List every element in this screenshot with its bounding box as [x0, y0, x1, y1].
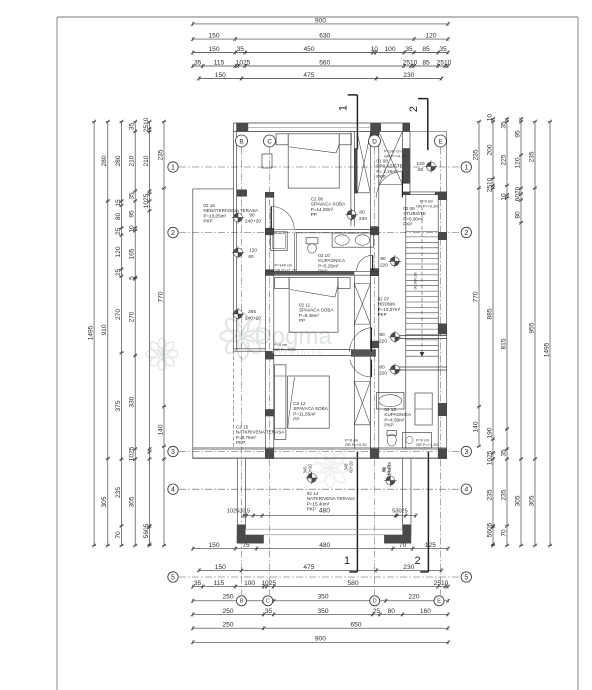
svg-text:280: 280: [101, 155, 108, 166]
svg-text:PKP: PKP: [378, 312, 387, 317]
nightstand bedroom1: [262, 154, 272, 168]
svg-text:85: 85: [422, 59, 430, 66]
svg-text:190: 190: [486, 427, 493, 438]
svg-text:E: E: [437, 599, 441, 605]
svg-text:2510: 2510: [437, 59, 452, 66]
dimension row top 900: [191, 17, 450, 26]
exterior wall bottom band (glazed): [193, 448, 447, 459]
svg-text:35: 35: [500, 121, 507, 129]
svg-text:SPAVAĆA SOBA: SPAVAĆA SOBA: [311, 201, 346, 207]
toilet bathroom1: [306, 238, 318, 253]
svg-text:350: 350: [317, 593, 328, 600]
dimension row bottom 150-75-480-70-125: [191, 542, 450, 551]
svg-text:85: 85: [422, 46, 430, 53]
svg-text:35: 35: [439, 46, 447, 53]
svg-text:25: 25: [373, 608, 381, 615]
svg-text:230: 230: [403, 72, 414, 79]
dimension chain left 280-910-305: [101, 120, 110, 548]
window note P0 GR0,30 left: [274, 342, 296, 352]
svg-text:7,60,25: 7,60,25: [387, 461, 392, 476]
bathroom partition: [294, 233, 296, 271]
svg-text:220: 220: [379, 338, 387, 344]
door mark 80/220 bedroom2: [380, 255, 401, 268]
svg-text:80: 80: [418, 167, 424, 173]
svg-text:E: E: [438, 138, 442, 145]
svg-text:480: 480: [319, 542, 330, 549]
grid bubble 1 left: [168, 162, 178, 172]
wall bathroom top: [265, 230, 379, 233]
svg-text:220: 220: [359, 216, 367, 222]
svg-text:80: 80: [380, 256, 386, 262]
column bubble B top: [236, 135, 248, 147]
section mark 2 top: [408, 99, 428, 151]
svg-text:270: 270: [129, 311, 136, 322]
svg-text:35: 35: [129, 123, 136, 131]
grid bubble 5 left: [168, 572, 178, 582]
column bubble D top: [369, 135, 381, 147]
svg-text:235: 235: [500, 489, 507, 500]
grid bubble 3 right: [461, 446, 471, 456]
dimension chain right 1495: [543, 120, 552, 548]
svg-text:PKP: PKP: [236, 440, 245, 445]
svg-text:60: 60: [248, 254, 254, 260]
window note P140 GR1,70: [275, 263, 297, 273]
svg-text:10: 10: [371, 46, 379, 53]
svg-text:560: 560: [319, 59, 330, 66]
svg-text:240+20: 240+20: [245, 316, 261, 322]
svg-text:120: 120: [249, 248, 257, 254]
svg-text:250: 250: [222, 622, 233, 629]
dimension row 250-350-220 with column bubbles: [191, 593, 450, 603]
dimension row bottom 35-115-100-1025-580-2510: [191, 580, 450, 589]
window mark 90/240+20: [232, 211, 262, 224]
column bubble D bottom: [370, 596, 380, 606]
pier on wall B at terrace line: [237, 190, 247, 197]
svg-text:450: 450: [303, 46, 314, 53]
svg-text:150: 150: [215, 72, 226, 79]
window mark 120/60: [232, 246, 258, 260]
room label 01 08 prilaziste: [376, 159, 402, 180]
svg-text:80: 80: [379, 364, 385, 370]
wall on grid C: [265, 192, 274, 459]
svg-text:305: 305: [514, 495, 521, 506]
svg-text:250: 250: [222, 608, 233, 615]
svg-text:SPAVAĆA SOBA: SPAVAĆA SOBA: [299, 307, 334, 313]
room label 02 16 nenatkrivena terasa: [203, 203, 259, 224]
svg-text:305: 305: [101, 496, 108, 507]
svg-text:70: 70: [500, 529, 507, 537]
svg-text:115: 115: [214, 59, 225, 66]
svg-text:PKP: PKP: [318, 269, 327, 274]
dimension row top 150-630-120: [191, 33, 450, 42]
grid line row 2: [179, 232, 461, 234]
wall top of stairwell: [402, 192, 446, 195]
svg-text:5: 5: [129, 276, 136, 280]
svg-text:480: 480: [319, 507, 330, 514]
svg-text:35: 35: [194, 59, 202, 66]
svg-text:770: 770: [472, 291, 479, 302]
window note P0 GR0,30 bottom: [345, 438, 367, 448]
grid bubble 5 right: [461, 572, 471, 582]
svg-text:140: 140: [157, 424, 164, 435]
cross brace over entry room: [379, 132, 403, 185]
svg-text:2: 2: [408, 106, 420, 112]
grid line row 4: [179, 488, 461, 490]
svg-text:210: 210: [129, 155, 136, 166]
dimension chain right 235-770-140: [472, 120, 481, 448]
grid bubble 1 right: [461, 162, 471, 172]
svg-text:2510: 2510: [486, 177, 493, 192]
bathtub bathroom2: [377, 393, 405, 410]
wall on grid D: [370, 132, 379, 459]
svg-text:235: 235: [157, 149, 164, 160]
door leaf and swing hodnik-bedroom2: [357, 255, 373, 271]
svg-text:10: 10: [486, 114, 493, 122]
svg-text:90: 90: [379, 332, 385, 338]
dimension row top 35-115-1025-560-2510-85-2510: [191, 59, 452, 68]
svg-text:GR P=+1,70: GR P=+1,70: [275, 268, 297, 273]
svg-text:225: 225: [500, 154, 507, 165]
svg-text:PRILAZIŠTE: PRILAZIŠTE: [376, 163, 402, 169]
wall between bedroom2 and bedroom3: [234, 349, 376, 359]
door leaf and swing at C wall: [271, 207, 294, 230]
svg-text:120: 120: [425, 33, 436, 40]
watermark flower and text (decor): [146, 313, 350, 488]
svg-text:15: 15: [115, 199, 122, 207]
svg-text:90: 90: [249, 213, 255, 219]
svg-text:80: 80: [359, 210, 365, 216]
svg-text:Dogma: Dogma: [254, 323, 332, 350]
svg-text:PKP: PKP: [384, 423, 393, 428]
svg-text:95: 95: [514, 130, 521, 138]
toilet bathroom2: [387, 431, 397, 447]
svg-text:1025: 1025: [261, 580, 276, 587]
svg-text:120: 120: [115, 246, 122, 257]
column bubble C top: [264, 135, 276, 147]
svg-text:C: C: [267, 138, 272, 145]
svg-text:140: 140: [472, 421, 479, 432]
svg-text:1495: 1495: [88, 325, 95, 340]
svg-text:C: C: [266, 599, 270, 605]
svg-text:2510: 2510: [403, 59, 418, 66]
svg-text:PKP: PKP: [203, 219, 212, 224]
svg-text:5: 5: [171, 575, 175, 582]
svg-text:235: 235: [528, 151, 535, 162]
section mark 1 bottom: [344, 452, 357, 572]
svg-text:GR P=+0,30: GR P=+0,30: [345, 442, 367, 447]
room label 02 14 natkrivena terasa: [307, 491, 356, 512]
door mark 80/220 bathroom1: [345, 209, 367, 222]
svg-text:35: 35: [500, 449, 507, 457]
svg-text:B: B: [239, 138, 243, 145]
svg-text:53025: 53025: [392, 508, 408, 514]
svg-text:100: 100: [384, 46, 395, 53]
svg-text:1025: 1025: [486, 450, 493, 465]
svg-text:06,08/0,18: 06,08/0,18: [414, 273, 418, 290]
svg-text:GR P=+4,70: GR P=+4,70: [384, 154, 406, 159]
dimension chain right 95-120-6020-80-305: [514, 117, 523, 548]
svg-text:160: 160: [420, 608, 431, 615]
window mark 265/240+20: [232, 308, 262, 322]
svg-text:PKP: PKP: [403, 222, 412, 227]
svg-text:35: 35: [405, 46, 413, 53]
door mark 90/220 hallway: [379, 331, 401, 345]
room label 02 06 stubiste: [403, 206, 425, 227]
svg-text:475: 475: [303, 72, 314, 79]
svg-text:150: 150: [208, 542, 219, 549]
svg-text:4: 4: [171, 487, 175, 494]
svg-text:GR P=+0,30: GR P=+0,30: [274, 347, 296, 352]
svg-text:2: 2: [464, 230, 468, 237]
svg-text:B: B: [240, 599, 244, 605]
svg-text:SPAVAĆA SOBA: SPAVAĆA SOBA: [293, 405, 328, 411]
svg-text:60+20: 60+20: [349, 460, 354, 472]
svg-text:165: 165: [129, 248, 136, 259]
dimension chain left 1495: [88, 120, 97, 548]
svg-text:350: 350: [317, 608, 328, 615]
svg-text:900: 900: [315, 17, 326, 24]
svg-text:GR P=+1,30: GR P=+1,30: [416, 442, 438, 447]
grid line row 3: [179, 451, 461, 453]
svg-text:200: 200: [486, 144, 493, 155]
wall hodnik landing stub: [392, 336, 447, 339]
grid bubble 4 left: [168, 484, 178, 494]
dimension row bottom 250-650: [191, 622, 450, 631]
dimension row top 150-475-230: [197, 72, 443, 81]
svg-text:220: 220: [380, 262, 388, 268]
svg-text:235: 235: [115, 487, 122, 498]
svg-text:35: 35: [194, 580, 202, 587]
grid line column B: [241, 148, 243, 596]
svg-text:25: 25: [115, 269, 122, 277]
svg-text:102530,5: 102530,5: [227, 508, 250, 514]
svg-text:265: 265: [248, 309, 256, 315]
svg-text:3: 3: [464, 449, 468, 456]
door mark 120/80 entry: [416, 160, 437, 173]
section mark 1 top: [338, 95, 358, 149]
dimension chain left 2510-210-1025-5605: [143, 117, 152, 547]
column bubble B bottom: [237, 596, 247, 606]
svg-text:10: 10: [500, 193, 507, 201]
svg-text:5605: 5605: [486, 522, 493, 537]
svg-text:280: 280: [115, 155, 122, 166]
bed bedroom3: [275, 365, 330, 440]
grid line column C: [269, 148, 271, 596]
svg-text:955: 955: [528, 322, 535, 333]
entry notch wall: [402, 132, 410, 195]
door leaf and swing bathroom2 entry: [350, 360, 372, 377]
dimension chain right 35-225-10-815-35-235-70: [500, 117, 509, 548]
svg-text:240+20: 240+20: [245, 219, 261, 225]
svg-text:650: 650: [350, 622, 361, 629]
svg-text:305: 305: [528, 495, 535, 506]
svg-text:4: 4: [464, 487, 468, 494]
svg-text:95: 95: [129, 210, 136, 218]
svg-text:270: 270: [115, 309, 122, 320]
svg-text:70: 70: [115, 531, 122, 539]
room label 02 10 kupaonica: [318, 253, 346, 274]
terrace door mark 2: [381, 464, 397, 487]
svg-text:PP: PP: [293, 417, 299, 422]
svg-text:125: 125: [425, 542, 436, 549]
window note P0 GR1,30 bottom right: [416, 438, 438, 448]
svg-text:1025: 1025: [143, 193, 150, 208]
room label 02 11 spavaca soba: [299, 303, 334, 324]
grid bubble 2 right: [461, 227, 471, 237]
svg-text:330: 330: [129, 396, 136, 407]
svg-text:100: 100: [244, 580, 255, 587]
window note P0 GR0,30 stair: [416, 199, 438, 209]
grid line column D: [374, 148, 376, 596]
svg-text:80: 80: [388, 608, 396, 615]
shaft wall strip with cross braces: [354, 275, 370, 449]
entry porch edge: [410, 132, 447, 192]
cabinet bathroom2: [415, 393, 432, 425]
dimension row top 150-35-450-10-100-35-85-35: [191, 46, 450, 55]
svg-text:PKP: PKP: [376, 174, 385, 179]
dimension row terrace 1025-30,5 480 5-30-25: [227, 507, 418, 517]
room label 02 13 kupaonica: [384, 407, 412, 428]
dimension chain left 280-15-80-25-120-25-270-375-235-70: [115, 120, 124, 548]
svg-text:1025: 1025: [129, 446, 136, 461]
grid bubble 3 left: [168, 446, 178, 456]
svg-text:PP: PP: [299, 318, 305, 323]
terrace door mark 1: [303, 463, 319, 484]
svg-text:150: 150: [215, 564, 226, 571]
svg-text:220: 220: [379, 371, 387, 377]
column bubble E top: [435, 135, 447, 147]
exterior wall left (glazed): [234, 123, 237, 350]
window note P140 GR4,70: [384, 149, 406, 159]
svg-text:35: 35: [129, 192, 136, 200]
terrace dim note 80/60,25 rotated: [382, 461, 392, 476]
column bubble C bottom: [263, 596, 273, 606]
svg-text:1025: 1025: [236, 59, 251, 66]
shower bathroom2: [403, 433, 432, 449]
svg-text:35: 35: [237, 46, 245, 53]
svg-text:60+20: 60+20: [308, 463, 313, 475]
grid line row 5: [179, 576, 461, 578]
svg-text:220: 220: [408, 593, 419, 600]
grid line row 1: [179, 166, 461, 168]
svg-text:2510: 2510: [143, 117, 150, 132]
svg-text:6020: 6020: [514, 186, 521, 201]
svg-text:815: 815: [500, 338, 507, 349]
svg-text:305: 305: [129, 496, 136, 507]
washing machine bathroom1: [271, 232, 288, 251]
dimension row bottom 900: [191, 636, 450, 645]
svg-text:375: 375: [115, 400, 122, 411]
svg-text:10: 10: [129, 225, 136, 233]
svg-text:885: 885: [486, 308, 493, 319]
dimension row bottom 150-475-230: [197, 564, 443, 573]
svg-text:5605: 5605: [143, 523, 150, 538]
svg-text:2510: 2510: [434, 580, 449, 587]
dimension chain right 235-955-305: [528, 120, 537, 548]
svg-text:3: 3: [171, 449, 175, 456]
exterior wall right: [438, 192, 447, 459]
svg-text:1: 1: [171, 165, 175, 172]
svg-text:80: 80: [115, 213, 122, 221]
svg-text:1: 1: [344, 555, 350, 567]
upper-left terrace edge: [193, 189, 234, 459]
svg-text:2: 2: [171, 230, 175, 237]
svg-text:150: 150: [208, 46, 219, 53]
svg-text:770: 770: [157, 291, 164, 302]
svg-text:210: 210: [143, 155, 150, 166]
svg-text:120: 120: [514, 157, 521, 168]
svg-text:2: 2: [414, 555, 420, 567]
lower terrace walls: [237, 459, 411, 544]
svg-text:STUBIŠTE: STUBIŠTE: [403, 210, 425, 216]
svg-text:900: 900: [315, 636, 326, 643]
upper shaft wall and cross brace: [351, 132, 370, 227]
svg-text:1: 1: [338, 105, 350, 111]
dimension chain left 35-210-35-95-10-165-5-270-330-1025-305: [129, 120, 138, 548]
room label C2 15 natkrivena terasa: [236, 425, 285, 446]
svg-text:580: 580: [347, 580, 358, 587]
double sink bathroom1: [332, 233, 373, 247]
bed bedroom1: [276, 134, 351, 188]
svg-text:630: 630: [319, 33, 330, 40]
svg-text:230: 230: [403, 564, 414, 571]
svg-text:GR P=+0,30: GR P=+0,30: [416, 204, 438, 209]
room label 02 07 hodnik: [378, 297, 401, 318]
section mark 2 bottom: [414, 452, 428, 572]
svg-text:80: 80: [514, 211, 521, 219]
door leaf and swing bedroom3 upper: [349, 328, 371, 353]
terrace dim note 345/60+20 rotated: [344, 460, 354, 472]
staircase treads: [406, 195, 438, 449]
svg-text:910: 910: [101, 324, 108, 335]
wall bathroom2 top: [392, 367, 447, 370]
svg-text:D: D: [373, 599, 377, 605]
svg-text:D: D: [372, 138, 377, 145]
svg-text:115: 115: [214, 580, 225, 587]
dimension chain right 200-2510-885-190-1025-235: [486, 114, 495, 548]
wall bathroom bottom: [265, 271, 379, 275]
svg-text:1: 1: [464, 165, 468, 172]
svg-text:PKP: PKP: [307, 507, 316, 512]
svg-text:235: 235: [472, 149, 479, 160]
roof edge dashed lower-left: [233, 350, 235, 448]
exterior wall top band: [234, 123, 410, 132]
svg-text:475: 475: [303, 564, 314, 571]
dimension chain left 235-770-140: [157, 120, 166, 548]
svg-text:PP: PP: [311, 212, 317, 217]
bed bedroom2: [275, 278, 351, 333]
grid bubble 2 left: [168, 227, 178, 237]
door mark 80/220 bathroom2: [379, 363, 401, 376]
svg-text:5: 5: [464, 575, 468, 582]
dimension row bottom 250-35-350-25-80-160: [191, 608, 450, 617]
grid line column E: [440, 148, 442, 596]
room label C2 08 spavaca soba: [311, 197, 346, 218]
svg-text:1495: 1495: [543, 342, 550, 357]
svg-text:250: 250: [222, 593, 233, 600]
svg-text:120: 120: [416, 161, 424, 167]
svg-text:235: 235: [486, 489, 493, 500]
svg-text:150: 150: [208, 33, 219, 40]
svg-text:25: 25: [115, 228, 122, 236]
room label C2 12 spavaca soba: [293, 401, 328, 422]
svg-text:35: 35: [265, 608, 273, 615]
entry door leaf and swing: [376, 172, 402, 198]
column bubble E bottom: [434, 596, 444, 606]
grid bubble 4 right: [461, 484, 471, 494]
